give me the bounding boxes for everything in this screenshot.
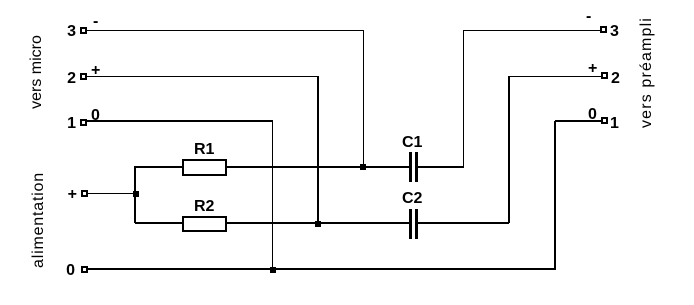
terminal square: alimentation + [82,191,87,196]
wire: C2 to right corner [418,222,509,224]
wire: right pin 1 horizontal [555,120,601,122]
wire: C1 to right corner [418,166,464,168]
wire: left pin 3 horizontal [87,30,363,31]
svg-text:R2: R2 [194,198,215,215]
wire: vertical from left pin 2 down to R2 line [317,76,319,223]
svg-text:3: 3 [610,23,619,40]
terminal square: left pin 1 [81,120,86,125]
terminal square: right pin 1 [602,118,607,123]
svg-text:C2: C2 [402,190,423,207]
terminal square: alimentation 0 [82,267,87,272]
junction: node on R1 line at x=363 [360,164,366,170]
wire: vertical up from C1 line to right pin 3 [463,30,464,167]
terminal square: right pin 3 [601,27,606,32]
svg-text:1: 1 [610,115,619,132]
wire: right pin 2 horizontal [509,76,601,77]
wire: R1 line, node A to R1 [135,166,182,168]
svg-text:0: 0 [66,262,75,279]
wire: right pin 3 horizontal [463,30,600,31]
wire: alimentation + to node A [87,193,135,194]
terminal square: left pin 2 [81,74,86,79]
resistor R1 [183,160,226,175]
svg-text:+: + [588,60,597,77]
wire: vertical from left pin 1 down to ground line [272,120,273,270]
terminal square: right pin 2 [602,73,607,78]
resistor R2 [183,217,226,231]
svg-text:vers micro: vers micro [28,35,45,109]
wire: vertical up from C2 line to right pin 2 [508,76,510,223]
junction: node A at x=135 [133,191,139,197]
svg-text:R1: R1 [194,141,215,158]
svg-text:1: 1 [67,115,76,132]
capacitor C1 [409,152,418,182]
svg-text:vers préampli: vers préampli [638,17,655,128]
wire: left pin 1 horizontal [87,120,273,122]
svg-text:2: 2 [67,70,76,87]
wire: ground line horizontal [87,268,555,270]
wire: vertical up from ground line to right pin 1 [554,121,556,270]
terminal square: left pin 3 [81,28,86,33]
wire: vertical from left pin 3 down to R1 line [363,30,364,167]
wire: vertical bus at x=135 between R1 and R2 lines [134,166,136,223]
junction: node on ground line at x=272 [270,267,276,273]
svg-text:C1: C1 [402,134,423,151]
junction: node on R2 line at x=318 [315,221,321,227]
wire: R1 to C1 [226,166,409,168]
wire: R2 to C2 [226,222,409,224]
svg-text:-: - [93,13,98,30]
svg-text:alimentation: alimentation [30,172,47,268]
capacitor C2 [409,209,418,239]
wire: R2 line, node A to R2 [135,222,182,224]
svg-text:0: 0 [588,106,597,123]
svg-text:-: - [586,8,591,25]
svg-text:2: 2 [611,70,620,87]
wire: left pin 2 horizontal [87,76,318,77]
svg-text:3: 3 [67,23,76,40]
svg-text:+: + [68,186,77,203]
